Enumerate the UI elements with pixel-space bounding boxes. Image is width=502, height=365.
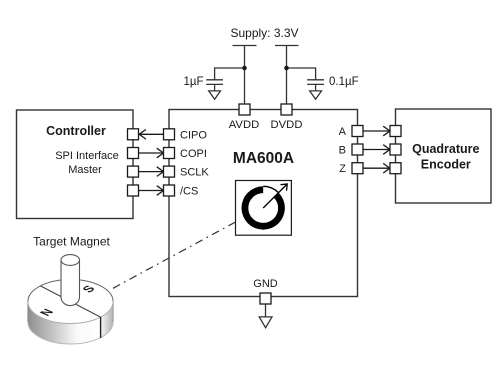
svg-text:DVDD: DVDD [270, 119, 302, 131]
svg-text:Target Magnet: Target Magnet [33, 235, 110, 249]
svg-text:SCLK: SCLK [180, 167, 209, 179]
svg-text:COPI: COPI [180, 148, 207, 160]
svg-text:GND: GND [253, 278, 278, 290]
svg-text:Z: Z [339, 163, 346, 175]
svg-text:SPI Interface: SPI Interface [55, 150, 119, 162]
svg-text:1µF: 1µF [183, 76, 203, 88]
svg-text:AVDD: AVDD [229, 119, 260, 131]
svg-text:A: A [339, 126, 347, 138]
svg-text:Supply: 3.3V: Supply: 3.3V [230, 26, 298, 40]
svg-text:B: B [339, 145, 346, 157]
svg-text:/CS: /CS [180, 186, 198, 198]
svg-text:0.1µF: 0.1µF [329, 76, 359, 88]
svg-text:Controller: Controller [46, 124, 106, 138]
svg-text:Master: Master [68, 164, 102, 176]
svg-text:MA600A: MA600A [233, 150, 294, 167]
svg-text:CIPO: CIPO [180, 129, 207, 141]
svg-text:Encoder: Encoder [421, 158, 471, 172]
svg-text:Quadrature: Quadrature [412, 142, 479, 156]
